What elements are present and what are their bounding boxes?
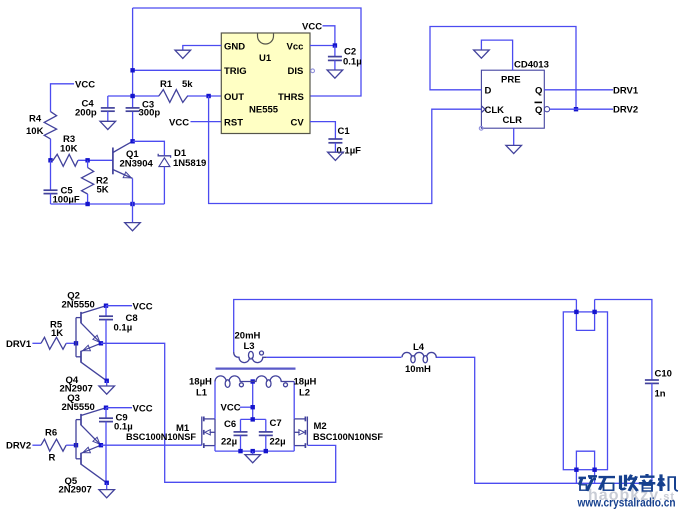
transistor M1 BSC100N10NSF: [126, 417, 215, 449]
svg-text:2N2907: 2N2907: [59, 484, 92, 495]
ground at GND pin: [175, 50, 191, 58]
wire center tap vertical: [252, 382, 254, 420]
node C6 bottom junction: [238, 449, 242, 453]
transistor Q3 2N5550: [62, 393, 107, 445]
svg-text:VCC: VCC: [75, 79, 95, 90]
ground below C1: [328, 152, 344, 160]
wire Q to DRV1: [544, 85, 639, 96]
svg-text:0.1µ: 0.1µ: [343, 57, 362, 68]
wire OUT to CLK net: [209, 96, 482, 204]
resistor R3: [51, 134, 79, 166]
svg-text:R6: R6: [45, 427, 57, 438]
wire output DRV2 to M1 gate: [101, 444, 202, 446]
wire ground stem Q1: [132, 204, 134, 223]
capacitor C9: [99, 408, 133, 483]
svg-text:L3: L3: [244, 341, 255, 352]
node OUT junction: [206, 94, 210, 98]
svg-text:DRV1: DRV1: [6, 339, 32, 350]
svg-text:10K: 10K: [26, 126, 44, 137]
svg-text:10K: 10K: [60, 144, 78, 155]
filament bottom: [576, 451, 594, 483]
wire ground stem rail: [252, 451, 254, 455]
wire base bus Q2Q4: [76, 318, 81, 357]
svg-text:C1: C1: [338, 126, 351, 137]
capacitor C4: [75, 96, 115, 121]
wire D feedback: [430, 27, 576, 110]
wire top feedback OUT-row to THRS: [133, 8, 361, 96]
svg-text:1K: 1K: [51, 328, 63, 339]
svg-text:CD4013: CD4013: [514, 60, 549, 71]
VCC label center tap: [221, 403, 253, 414]
svg-text:BSC100N10NSF: BSC100N10NSF: [126, 432, 196, 443]
capacitor C5: [44, 160, 80, 205]
wire VCC Q3: [106, 404, 153, 415]
resistor R4: [26, 112, 57, 139]
svg-text:NE555: NE555: [249, 105, 279, 116]
svg-text:L2: L2: [299, 387, 310, 398]
svg-text:M2: M2: [314, 421, 327, 432]
node Q4 collector junction: [105, 379, 109, 383]
svg-text:DRV1: DRV1: [613, 85, 639, 96]
diode D1 1N5819: [158, 148, 206, 204]
wire M2 drain to L2: [293, 382, 295, 419]
label DRV2 input: [6, 441, 41, 452]
inductor L2: [253, 376, 317, 398]
capacitor C7: [259, 418, 286, 451]
node top rail junction: [251, 417, 255, 421]
transistor Q1 2N3904: [113, 141, 154, 204]
node Vcc junction: [333, 43, 337, 47]
ground below Q4: [99, 386, 115, 394]
pin RST: [224, 117, 243, 128]
inductor L4: [402, 342, 437, 375]
capacitor C8: [99, 306, 138, 381]
node R2 top junction: [85, 158, 89, 162]
pin Q: [535, 85, 542, 96]
node base-left junction: [48, 158, 52, 162]
wire RST VCC: [169, 118, 221, 129]
svg-text:CV: CV: [291, 117, 305, 128]
pin THRS: [278, 92, 304, 103]
filament top: [576, 300, 594, 331]
svg-text:R1: R1: [160, 79, 173, 90]
node center tap junction: [251, 379, 255, 383]
flip-flop CD4013 body: [481, 60, 548, 129]
svg-text:5k: 5k: [182, 79, 193, 90]
svg-text:DIS: DIS: [288, 66, 304, 77]
transistor M2 BSC100N10NSF: [294, 417, 383, 449]
node C7 bottom junction: [264, 449, 268, 453]
node Q3Q5 base junction: [74, 443, 78, 447]
node R2 bottom junction: [85, 202, 89, 206]
pin DIS: [288, 66, 304, 77]
capacitor C10: [645, 369, 672, 484]
svg-text:200p: 200p: [75, 108, 97, 119]
svg-text:L1: L1: [196, 387, 208, 398]
op-amp U1 NE555 body: [221, 33, 310, 134]
ground below C2: [327, 70, 343, 78]
watermark gray text: [588, 487, 674, 504]
node Q2 collector junction: [104, 304, 108, 308]
svg-text:VCC: VCC: [221, 403, 241, 414]
node lamp pin bottom left: [574, 468, 578, 472]
pin OUT: [224, 92, 244, 103]
node Q2Q4 base junction: [74, 341, 78, 345]
svg-text:1N5819: 1N5819: [173, 158, 206, 169]
svg-text:2N5550: 2N5550: [62, 300, 95, 311]
transistor Q4 2N2907: [60, 343, 107, 394]
ground at CLR: [506, 145, 522, 153]
wire VCC Q2: [106, 302, 153, 313]
node Q3 collector junction: [104, 406, 108, 410]
pin CV: [291, 117, 305, 128]
node Q3Q5 output junction: [99, 443, 103, 447]
svg-text:18µH: 18µH: [294, 377, 317, 388]
watermark logo 矿石收音机: [579, 474, 679, 491]
capacitor C3: [126, 99, 161, 118]
wire Qbar to DRV2: [550, 105, 639, 116]
wire M2 source: [293, 446, 295, 452]
svg-text:Q: Q: [535, 105, 542, 116]
node Q2Q4 output junction: [99, 341, 103, 345]
wire OUT row: [108, 95, 222, 97]
resistor R1: [159, 79, 193, 102]
wire L4 to lamp bottom: [437, 357, 652, 483]
pin Qbar: [535, 102, 543, 115]
wire PRE to ground: [481, 40, 512, 70]
svg-text:22µ: 22µ: [270, 437, 286, 448]
no-connect bubble DIS: [311, 69, 315, 73]
svg-text:C7: C7: [270, 418, 282, 429]
capacitor C6: [221, 419, 248, 451]
node emitter junction: [130, 202, 134, 206]
svg-text:18µH: 18µH: [189, 377, 212, 388]
svg-text:PRE: PRE: [501, 74, 521, 85]
node Q5 collector junction: [105, 481, 109, 485]
wire base row: [78, 159, 113, 161]
ground below C4: [100, 121, 116, 129]
svg-text:VCC: VCC: [302, 22, 322, 33]
wire CLR to ground: [513, 128, 515, 145]
wire ground rail C6 C7: [215, 450, 294, 452]
node TRIG junction: [130, 68, 134, 72]
inductor L1: [189, 376, 253, 398]
svg-text:C10: C10: [655, 369, 672, 380]
svg-text:VCC: VCC: [133, 404, 153, 415]
wire ground rail Q1: [51, 203, 165, 205]
svg-text:C6: C6: [224, 419, 236, 430]
svg-text:D: D: [485, 85, 492, 96]
resistor R6: [41, 427, 66, 463]
wire R5 to base: [66, 342, 76, 344]
svg-text:Q: Q: [535, 85, 542, 96]
svg-text:1n: 1n: [655, 389, 666, 400]
svg-text:www.crystalradio.cn: www.crystalradio.cn: [577, 496, 676, 509]
svg-text:L4: L4: [413, 342, 425, 353]
ground below Q5: [99, 490, 115, 498]
wire top rail C6 C7: [241, 418, 266, 420]
svg-text:0.1µ: 0.1µ: [114, 323, 133, 334]
wire L3 left to top bus: [234, 300, 577, 353]
bubble corner CLR: [479, 126, 483, 130]
pin CLK: [481, 105, 504, 116]
svg-text:2N5550: 2N5550: [62, 402, 95, 413]
wire R4 to base node: [50, 139, 52, 160]
wire M1 source: [214, 446, 216, 452]
svg-text:U1: U1: [259, 53, 272, 64]
svg-text:GND: GND: [224, 41, 245, 52]
pin D: [485, 85, 492, 96]
svg-text:RST: RST: [224, 117, 243, 128]
transformer core: [216, 368, 296, 370]
VCC label C2: [302, 22, 335, 46]
transistor Q2 2N5550: [62, 291, 107, 344]
capacitor C1: [328, 126, 361, 157]
svg-text:VCC: VCC: [169, 118, 189, 129]
wire L3 to L4: [267, 356, 402, 358]
node lamp pin top right: [592, 310, 596, 314]
svg-text:R4: R4: [29, 114, 42, 125]
capacitor C2: [328, 46, 362, 71]
label DRV1 input: [6, 339, 41, 350]
node Qbar feedback junction: [574, 107, 578, 111]
svg-text:300p: 300p: [139, 107, 161, 118]
svg-text:10mH: 10mH: [405, 364, 431, 375]
resistor R5: [41, 320, 66, 350]
wire main vertical node (TRIG/OUT/C3): [132, 8, 134, 141]
node OUT-C3 junction: [130, 94, 134, 98]
svg-text:DRV2: DRV2: [6, 441, 31, 452]
svg-text:DRV2: DRV2: [613, 105, 638, 116]
node VCC junction: [251, 405, 255, 409]
wire ground stem Q5: [106, 483, 108, 490]
pin TRIG: [224, 66, 247, 77]
ground below Q1: [125, 223, 141, 231]
wire Vcc pin to C2: [310, 45, 335, 47]
svg-text:OUT: OUT: [224, 92, 244, 103]
svg-text:5K: 5K: [97, 185, 109, 196]
wire collector to D1: [133, 141, 165, 155]
wire ground stem Q4: [106, 381, 108, 386]
node lamp pin bottom right: [592, 468, 596, 472]
wire output DRV1 to M2 gate: [101, 343, 336, 482]
watermark url: [577, 496, 676, 509]
resistor R2: [82, 160, 109, 204]
svg-text:TRIG: TRIG: [224, 66, 247, 77]
ground below rail: [245, 455, 261, 463]
svg-text:22µ: 22µ: [221, 437, 237, 448]
transistor Q5 2N2907: [59, 445, 107, 495]
node lamp pin top left: [574, 310, 578, 314]
wire lamp top right to C10: [595, 300, 652, 381]
wire R6 to base: [66, 444, 76, 446]
wire base bus Q3Q5: [76, 420, 81, 459]
node rail center junction: [251, 449, 255, 453]
svg-text:2N3904: 2N3904: [120, 159, 154, 170]
wire GND pin: [183, 46, 222, 51]
svg-text:VCC: VCC: [133, 302, 153, 313]
lamp tube body: [563, 312, 607, 470]
svg-text:R: R: [49, 452, 56, 463]
wire M1 drain to L1: [214, 382, 216, 419]
bubble Qbar: [544, 107, 549, 112]
svg-text:CLK: CLK: [485, 105, 505, 116]
node collector junction: [130, 139, 134, 143]
wire CV to C1: [310, 122, 335, 139]
svg-text:THRS: THRS: [278, 92, 304, 103]
pin GND: [224, 41, 245, 52]
pin Vcc: [287, 41, 304, 52]
inductor L3: [234, 331, 267, 363]
ground at PRE: [474, 50, 490, 58]
wire TRIG: [133, 69, 222, 71]
svg-text:Vcc: Vcc: [287, 41, 304, 52]
svg-text:CLR: CLR: [503, 115, 523, 126]
VCC label R4: [51, 79, 96, 111]
svg-text:BSC100N10NSF: BSC100N10NSF: [313, 432, 383, 443]
